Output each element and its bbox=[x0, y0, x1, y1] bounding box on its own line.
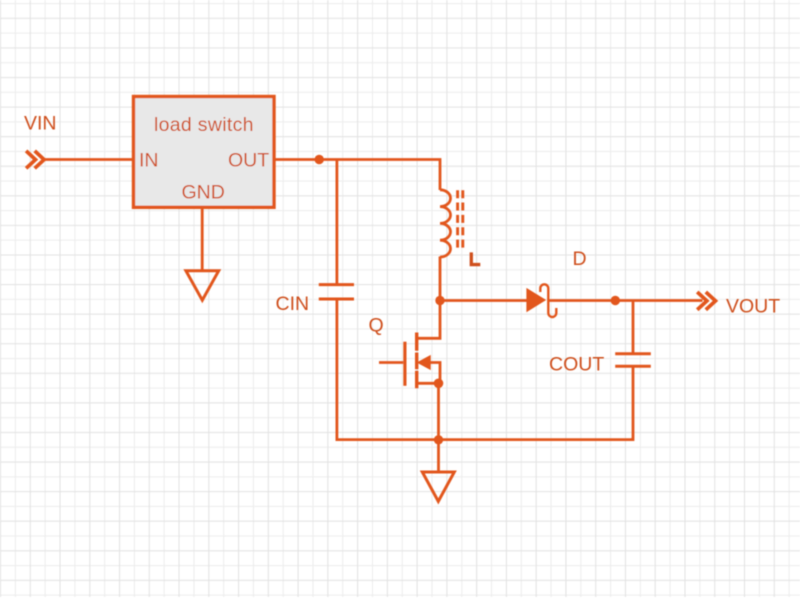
wire GND pin down bbox=[201, 208, 204, 270]
wire switch node to diode anode bbox=[440, 299, 527, 302]
svg-text:COUT: COUT bbox=[549, 354, 604, 376]
capacitor COUT bbox=[615, 354, 651, 367]
svg-text:load switch: load switch bbox=[154, 114, 254, 136]
junction dot VOUT/COUT bbox=[611, 296, 620, 305]
ground under rail bbox=[422, 472, 454, 501]
svg-text:CIN: CIN bbox=[276, 293, 310, 315]
capacitor CIN bbox=[319, 285, 354, 299]
wire CIN top branch bbox=[335, 160, 338, 284]
wire ground rail bbox=[336, 438, 634, 441]
load switch U1 body bbox=[134, 97, 275, 208]
node VIN input port chevron bbox=[26, 151, 44, 168]
junction dot source/body bbox=[434, 379, 444, 389]
wire ground stub bbox=[437, 440, 440, 471]
ground under load switch bbox=[186, 271, 219, 301]
svg-text:VIN: VIN bbox=[24, 113, 57, 135]
junction dot OUT/CIN bbox=[315, 155, 324, 164]
diode D bbox=[527, 284, 556, 317]
wire diode cathode to VOUT bbox=[548, 299, 702, 302]
transistor Q1 MOSFET bbox=[379, 302, 440, 388]
node VOUT output port chevron bbox=[697, 292, 715, 310]
junction dot switch node bbox=[435, 296, 444, 305]
wire CIN bottom branch bbox=[335, 299, 338, 441]
wire OUT to inductor bbox=[274, 160, 440, 191]
svg-text:IN: IN bbox=[139, 150, 159, 172]
svg-text:OUT: OUT bbox=[228, 150, 269, 172]
wire COUT bottom branch bbox=[631, 366, 633, 439]
svg-text:VOUT: VOUT bbox=[726, 296, 780, 318]
inductor L bbox=[440, 190, 451, 257]
wire VIN to load switch bbox=[44, 158, 136, 161]
junction dot ground rail bbox=[434, 435, 443, 444]
inductor core dashed lines bbox=[458, 190, 463, 248]
label L bbox=[471, 252, 480, 264]
svg-text:Q: Q bbox=[369, 315, 384, 337]
svg-text:GND: GND bbox=[182, 182, 225, 204]
wire inductor to switch node bbox=[439, 257, 442, 303]
wire source to ground rail bbox=[437, 383, 440, 441]
svg-text:D: D bbox=[573, 248, 587, 270]
wire COUT top branch bbox=[632, 301, 635, 353]
